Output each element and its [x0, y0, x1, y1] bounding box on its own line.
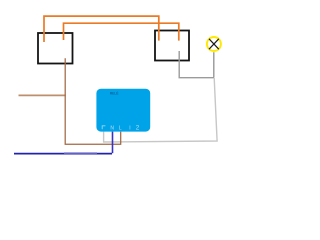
terminal label SW — [102, 126, 105, 130]
wire orange 1: S1 terminal to S2 terminal — [44, 16, 159, 42]
wire blue: relay N terminal down — [112, 132, 114, 154]
wire gray: S2 to lamp junction — [179, 51, 214, 78]
switch S2 — [155, 31, 189, 61]
wire periwinkle overlap — [64, 152, 97, 154]
svg-text:I: I — [129, 126, 130, 132]
wire gray: lamp stem — [213, 52, 215, 77]
wire light gray: relay SW terminal to lamp junction — [104, 78, 218, 142]
wire tan stub at left — [19, 94, 66, 96]
svg-text:2: 2 — [136, 125, 140, 132]
wire orange 2: S1 terminal to S2 terminal — [64, 23, 179, 40]
wire navy neutral at bottom — [14, 153, 112, 155]
svg-text:RELÉ: RELÉ — [110, 91, 120, 96]
switch S1 — [38, 33, 73, 64]
svg-text:N: N — [110, 126, 114, 132]
lamp X1 — [207, 37, 221, 51]
svg-text:L: L — [119, 126, 122, 132]
wire brown: S1 bottom to relay L terminal — [65, 58, 121, 144]
relay module U1 — [96, 89, 150, 132]
